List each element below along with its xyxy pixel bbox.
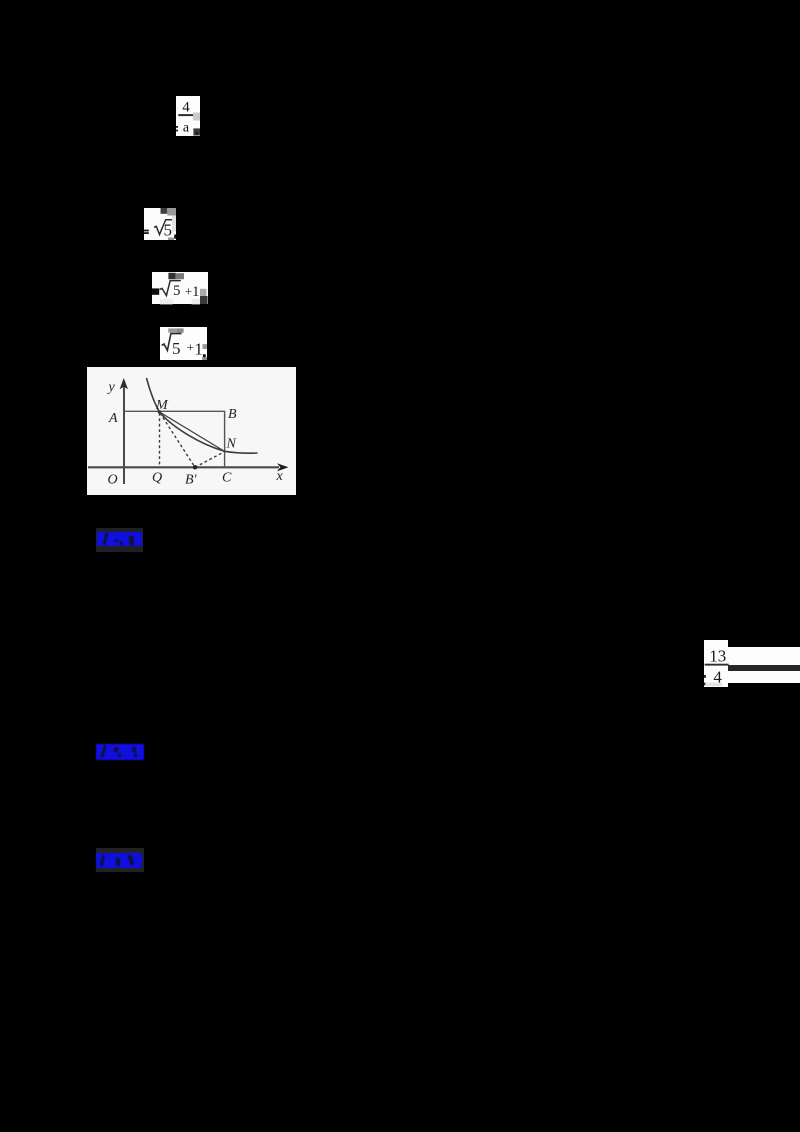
svg-text:1: 1 bbox=[194, 340, 203, 359]
rectangle ABCO top and right edges bbox=[124, 411, 225, 467]
dark artifact square top bbox=[168, 272, 175, 278]
gray artifact bar top bbox=[168, 329, 176, 333]
svg-text:+: + bbox=[185, 283, 192, 298]
dashed MB' bbox=[160, 413, 195, 467]
dashed B'N bbox=[195, 451, 225, 467]
svg-text:,: , bbox=[195, 121, 198, 136]
gray artifact right bbox=[200, 288, 206, 295]
y-axis bbox=[123, 386, 125, 484]
equation image: fraction 13/4 cut at right edge bbox=[704, 640, 728, 687]
equation image: fraction 4/a bbox=[176, 96, 200, 136]
x-axis bbox=[88, 466, 279, 468]
svg-text:B: B bbox=[228, 407, 237, 422]
gray artifact bottom-right bbox=[202, 357, 207, 360]
equals fragment left bbox=[704, 675, 706, 678]
radical sign with vinculum bbox=[160, 280, 181, 295]
fraction bar bbox=[704, 663, 728, 665]
equation image: = sqrt(5) bbox=[144, 208, 176, 240]
gray artifact square bbox=[193, 112, 200, 120]
light artifact bottom bbox=[705, 682, 722, 686]
gray artifact right bbox=[203, 344, 208, 349]
svg-text:M: M bbox=[155, 398, 169, 413]
black mark right edge bbox=[174, 235, 176, 239]
radical sign bbox=[154, 220, 172, 235]
equation image: = sqrt(5)+1, bbox=[152, 272, 208, 304]
gray artifact square top-right bbox=[167, 208, 176, 216]
svg-text:N: N bbox=[226, 436, 237, 451]
comma dark corner bbox=[193, 128, 200, 135]
fraction bar bbox=[178, 114, 193, 116]
svg-text:O: O bbox=[108, 472, 118, 487]
svg-text:x: x bbox=[276, 468, 284, 483]
gray artifact square top bbox=[176, 273, 184, 279]
chord MN bbox=[160, 412, 225, 452]
radical sign with vinculum bbox=[162, 334, 182, 351]
svg-text:4: 4 bbox=[182, 99, 190, 115]
equals sign bbox=[144, 230, 149, 232]
equals black block bbox=[152, 288, 159, 294]
svg-text:+: + bbox=[187, 340, 194, 355]
figure: hyperbola graph with rectangle OABC bbox=[87, 367, 296, 495]
svg-text:y: y bbox=[107, 380, 116, 395]
point M dot bbox=[158, 410, 161, 413]
svg-text:A: A bbox=[108, 411, 118, 426]
svg-text:Q: Q bbox=[152, 470, 162, 485]
svg-text:1: 1 bbox=[192, 284, 200, 300]
svg-text:a: a bbox=[183, 120, 190, 135]
light strip bottom bbox=[160, 299, 173, 304]
dark artifact bottom-right bbox=[200, 296, 208, 304]
blue link blob 2 bbox=[96, 744, 144, 760]
svg-text:5: 5 bbox=[164, 220, 173, 239]
equation image: sqrt(5)+1, second bbox=[160, 327, 207, 360]
dark artifact square bbox=[161, 208, 168, 214]
blue link blob 1 with dark frame bbox=[96, 528, 143, 552]
point B' dot bbox=[193, 465, 197, 469]
blue link blob 3 with dark frame bbox=[96, 848, 144, 872]
dashed MQ bbox=[159, 413, 161, 467]
svg-text:C: C bbox=[222, 470, 232, 485]
hyperbola curve bbox=[147, 378, 258, 453]
svg-text:B′: B′ bbox=[185, 472, 198, 487]
svg-text:13: 13 bbox=[709, 646, 726, 665]
gray artifact bottom-right bbox=[168, 238, 174, 241]
equals fragment left bbox=[176, 126, 178, 128]
comma bbox=[203, 354, 206, 357]
svg-text:5: 5 bbox=[172, 339, 181, 358]
light artifact right bbox=[172, 216, 176, 232]
svg-text:5: 5 bbox=[173, 283, 181, 299]
